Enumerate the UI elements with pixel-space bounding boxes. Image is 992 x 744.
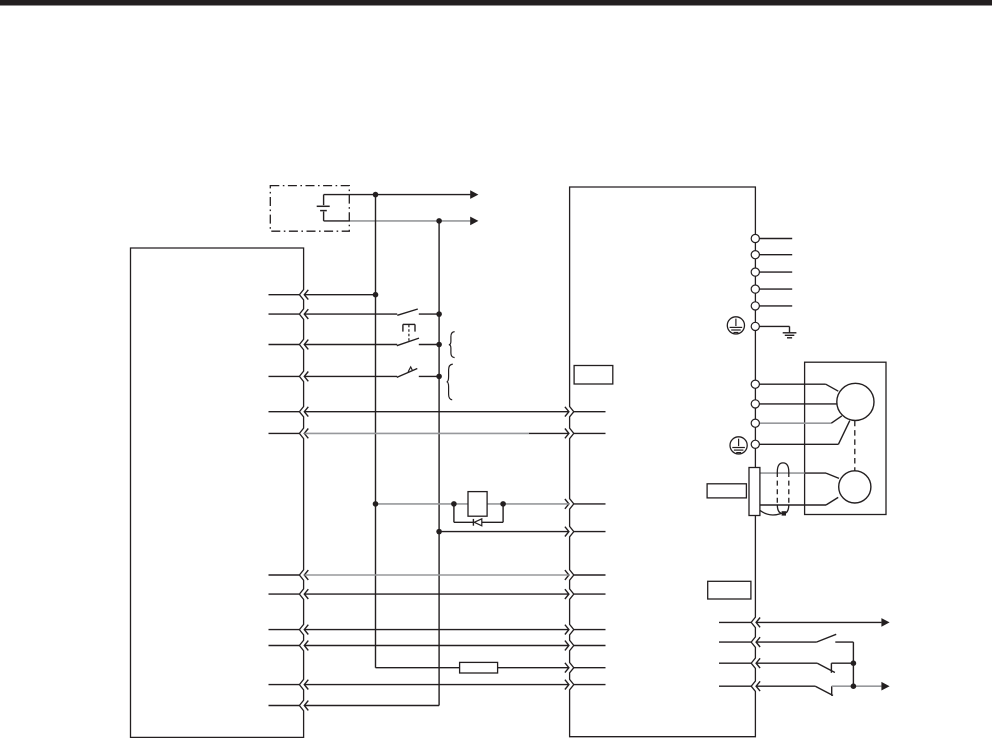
wire battery+ to arrow — [324, 194, 471, 196]
pin stub inside right box (right edge) #1 — [719, 621, 751, 623]
pin stub inside left box #5 — [269, 411, 300, 413]
pin stub inside right box (left edge) #4 — [574, 531, 606, 533]
pin chevron right-box-left #10 — [565, 680, 569, 690]
wire motor V — [759, 403, 837, 405]
wire encoder top black — [805, 473, 839, 478]
bus vertical output — [852, 642, 854, 686]
terminal circle motor #4 — [751, 440, 759, 448]
pin chevron left-box #7 — [304, 570, 308, 580]
shield ground curve — [760, 510, 781, 515]
brace group EMG — [449, 332, 455, 358]
wire analog line 2 gray — [304, 432, 568, 434]
terminal circle motor #1 — [751, 380, 759, 388]
pin stub inside right box (left edge) #2 — [574, 432, 606, 434]
terminal circle power #1 — [751, 234, 759, 242]
wire V1 vertical bus — [375, 195, 377, 668]
wire pulse line 4 — [304, 645, 568, 647]
pushbutton EMG head — [403, 324, 415, 341]
wire SON to V2 — [419, 313, 439, 315]
wire resistor to servo box — [498, 667, 569, 669]
pin chevron right-box-left #9 — [565, 663, 569, 673]
pin stub inside left box #10 — [269, 645, 300, 647]
wire output3 to bus — [831, 662, 853, 664]
node EMG junction — [436, 342, 442, 348]
arrow output 4 — [881, 682, 889, 691]
pin chevron left-box #1 — [304, 290, 308, 300]
wire encoder top gray — [760, 472, 805, 474]
node battery+ / V1 junction — [373, 192, 379, 198]
encoder connector CN2 — [749, 468, 760, 516]
wire EMG to V2 — [419, 344, 439, 346]
shaft coupling dashed — [854, 421, 856, 471]
pin chevron left-box #4 — [304, 372, 308, 382]
wire SON line — [304, 313, 397, 315]
terminal L2 lead — [759, 254, 792, 256]
label box CN2 — [707, 484, 746, 498]
pin chevron right-box-right #2 — [756, 637, 760, 647]
terminal circle motor #2 — [751, 400, 759, 408]
pin stub inside right box (left edge) #1 — [574, 411, 606, 413]
pin chevron left-box #3 — [304, 340, 308, 350]
ground symbol (power) — [783, 333, 797, 338]
wire battery- black segment — [324, 220, 350, 222]
controller unit box (left) — [131, 248, 304, 737]
terminal circle motor #3 — [751, 419, 759, 427]
pin chevron right-box-left #1 — [565, 407, 569, 417]
pin stub inside left box #3 — [269, 344, 300, 346]
switch EMG blade — [397, 338, 419, 346]
label box CN3 — [708, 581, 751, 599]
relay coil RA — [468, 492, 487, 517]
protective earth symbol PE1 — [727, 317, 744, 334]
pin chevron right-box-right #1 — [756, 618, 760, 628]
node relay coil right — [500, 501, 506, 507]
pin chevron right-box-left #8 — [565, 641, 569, 651]
switch output4 bar — [831, 686, 833, 696]
pin stub inside right box (left edge) #7 — [574, 629, 606, 631]
wire pulse line 2 — [304, 593, 568, 595]
resistor R1 — [460, 662, 498, 673]
node relay return V2 junction — [436, 529, 442, 535]
terminal circle power #5 — [751, 302, 759, 310]
pin chevron left-box #5 — [304, 407, 308, 417]
pin stub inside left box #11 — [269, 684, 300, 686]
node SON junction — [436, 311, 442, 317]
pin stub inside right box (left edge) #6 — [574, 593, 606, 595]
pin chevron left-box #11 — [304, 680, 308, 690]
node LS junction — [436, 374, 442, 380]
terminal circle power #4 — [751, 285, 759, 293]
pin stub inside left box #1 — [269, 294, 300, 296]
pin stub inside right box (left edge) #8 — [574, 645, 606, 647]
pin chevron right-box-left #6 — [565, 589, 569, 599]
pin chevron right-box-left #3 — [565, 499, 569, 509]
node battery- / V2 junction — [436, 218, 442, 224]
wire output 3 — [756, 662, 817, 664]
node DI common junction — [373, 292, 379, 298]
shield ellipse — [777, 463, 789, 514]
servo amplifier box (right) — [570, 187, 756, 737]
terminal PE lead + ground — [759, 326, 789, 332]
servo motor M — [837, 383, 874, 420]
pin chevron right-box-left #5 — [565, 570, 569, 580]
battery option dash-dot enclosure — [270, 186, 349, 232]
pin stub inside left box #6 — [269, 432, 300, 434]
pin chevron left-box #8 — [304, 589, 308, 599]
arrow output ALM — [881, 618, 889, 627]
wire battery- gray segment — [350, 220, 470, 222]
brace group LS — [447, 364, 453, 400]
pin stub inside left box #4 — [269, 375, 300, 377]
switch SON blade — [397, 309, 418, 315]
node output3 junction — [851, 660, 857, 666]
wire LS line — [304, 375, 397, 377]
wire DI common to V1 — [304, 294, 375, 296]
pin chevron left-box #10 — [304, 641, 308, 651]
label box CN1B — [574, 366, 613, 385]
wire output4 to bus gray — [832, 685, 882, 687]
shield ground pad — [782, 511, 786, 515]
pin chevron left-box #2 — [304, 309, 308, 319]
pin chevron left-box #9 — [304, 625, 308, 635]
wire diode loop — [454, 504, 503, 522]
node relay line V1 junction — [373, 501, 379, 507]
pin stub inside right box (left edge) #10 — [574, 684, 606, 686]
wire analog line 1 — [304, 411, 568, 413]
wire relay line gray — [376, 503, 569, 505]
wire output 4 — [756, 685, 815, 687]
wire relay return line — [439, 531, 569, 533]
pin stub inside right box (right edge) #4 — [719, 685, 751, 687]
diode D1 — [473, 519, 481, 526]
pin chevron right-box-right #4 — [756, 681, 760, 691]
wire encoder bottom — [760, 497, 838, 505]
terminal L4 lead — [759, 288, 792, 290]
pin chevron right-box-left #2 — [565, 429, 569, 439]
switch output2 blade — [816, 634, 836, 642]
wire pulse line 1 gray — [304, 574, 568, 576]
wire motor U — [759, 384, 838, 391]
pin chevron left-box #6 — [304, 429, 308, 439]
pin chevron right-box-left #4 — [565, 527, 569, 537]
switch LS roller triangle — [408, 367, 412, 372]
wire pulse line 5 — [304, 684, 568, 686]
wire LS to V2 — [419, 375, 439, 377]
switch output3 blade — [817, 663, 835, 672]
pin stub inside left box #8 — [269, 593, 300, 595]
protective earth symbol PE2 — [730, 437, 747, 454]
terminal circle power #6 — [751, 322, 759, 330]
terminal L3 lead — [759, 271, 792, 273]
switch output3 bar — [830, 663, 832, 673]
arrow out top — [470, 190, 478, 199]
pin stub inside left box #12 — [269, 705, 300, 707]
wire V2 vertical bus — [438, 221, 440, 706]
pin stub inside left box #9 — [269, 629, 300, 631]
wire output2 to bus — [835, 641, 853, 643]
switch LS blade — [397, 369, 418, 378]
wire output ALM — [756, 621, 881, 623]
pin stub inside right box (left edge) #3 — [574, 503, 606, 505]
wire EMG line — [304, 344, 397, 346]
pin chevron right-box-left #7 — [565, 625, 569, 635]
terminal circle power #2 — [751, 251, 759, 259]
pin stub inside left box #2 — [269, 313, 300, 315]
battery B1 — [317, 195, 330, 221]
terminal L1 lead — [759, 238, 792, 240]
pin stub inside right box (left edge) #9 — [574, 667, 606, 669]
wire motor W gray — [759, 416, 841, 423]
node output4 junction — [851, 683, 857, 689]
pin stub inside right box (left edge) #5 — [574, 574, 606, 576]
page header bar — [0, 0, 992, 6]
wire motor earth — [759, 421, 849, 445]
switch output4 blade — [815, 686, 833, 695]
pin chevron left-box #12 — [304, 701, 308, 711]
pin stub inside right box (right edge) #3 — [719, 662, 751, 664]
wire output 2 — [756, 641, 816, 643]
wire V2 return to controller — [304, 705, 439, 707]
pin stub inside left box #7 — [269, 574, 300, 576]
wire pulse line 3 — [304, 629, 568, 631]
encoder circle — [839, 471, 871, 503]
motor box — [805, 362, 886, 514]
pin chevron right-box-right #3 — [756, 658, 760, 668]
pin stub inside right box (right edge) #2 — [719, 641, 751, 643]
wire resistor feed from V1 — [376, 667, 460, 669]
terminal circle power #3 — [751, 268, 759, 276]
terminal L5 lead — [759, 305, 792, 307]
arrow out bottom — [470, 217, 478, 226]
node relay coil left — [451, 501, 457, 507]
